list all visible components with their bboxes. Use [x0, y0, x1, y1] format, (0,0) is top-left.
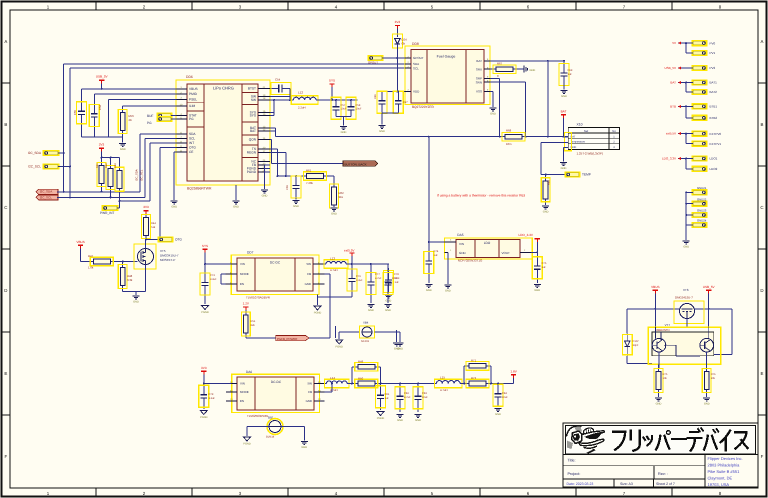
svg-text:DMG3415U-7: DMG3415U-7 — [675, 295, 693, 299]
svg-text:DC-DC: DC-DC — [270, 261, 281, 265]
svg-text:PGND: PGND — [201, 311, 209, 314]
svg-text:GND: GND — [495, 413, 501, 416]
svg-text:GPOUT: GPOUT — [368, 61, 378, 65]
svg-text:C81: C81 — [385, 393, 390, 396]
svg-text:19703, USA: 19703, USA — [708, 482, 730, 487]
svg-text:C: C — [760, 205, 763, 210]
svg-text:SYS: SYS — [329, 78, 335, 82]
svg-text:GND: GND — [133, 300, 139, 303]
svg-text:PGND: PGND — [314, 312, 322, 315]
svg-text:C54: C54 — [275, 78, 281, 82]
svg-text:2803 Philadelphia: 2803 Philadelphia — [708, 462, 741, 467]
svg-text:PV2: PV2 — [710, 66, 716, 70]
svg-text:VIN: VIN — [240, 382, 245, 386]
svg-text:C66: C66 — [374, 94, 377, 99]
svg-text:GND: GND — [683, 245, 689, 248]
svg-text:BAT2: BAT2 — [710, 90, 718, 94]
svg-text:BUTTON_BACK: BUTTON_BACK — [345, 162, 367, 166]
svg-text:SRN: SRN — [476, 80, 482, 84]
svg-text:10k: 10k — [663, 377, 668, 380]
svg-text:NCP702SN33T1G: NCP702SN33T1G — [458, 259, 483, 263]
svg-text:PWR_INT: PWR_INT — [100, 211, 114, 215]
svg-text:X10: X10 — [577, 123, 583, 127]
svg-text:No: No — [612, 129, 616, 133]
svg-text:GND: GND — [397, 347, 403, 350]
svg-text:Sheet 2 of 7: Sheet 2 of 7 — [656, 482, 675, 486]
svg-text:10uF: 10uF — [356, 108, 362, 111]
svg-text:1.8V: 1.8V — [510, 369, 517, 373]
svg-text:I2C_SDA: I2C_SDA — [134, 169, 138, 181]
svg-text:BUF: BUF — [147, 114, 153, 118]
svg-text:LDO_3.3V: LDO_3.3V — [519, 233, 534, 237]
svg-text:C56: C56 — [98, 104, 102, 110]
svg-text:TLV61070ADBVR: TLV61070ADBVR — [246, 296, 271, 300]
svg-text:C69: C69 — [568, 69, 573, 72]
svg-text:BAT1: BAT1 — [710, 81, 718, 85]
svg-text:L13: L13 — [330, 257, 335, 261]
svg-text:PGND: PGND — [335, 346, 343, 349]
svg-text:C83: C83 — [422, 392, 427, 395]
svg-text:C75: C75 — [542, 262, 547, 265]
svg-text:EXTPV0: EXTPV0 — [710, 132, 722, 136]
svg-text:I2C_SCL: I2C_SCL — [40, 195, 53, 199]
svg-text:USB_5V: USB_5V — [664, 66, 676, 70]
svg-text:PGND: PGND — [377, 417, 385, 420]
svg-text:SW: SW — [306, 262, 311, 266]
svg-text:MODE: MODE — [240, 390, 249, 394]
svg-text:F: F — [4, 454, 7, 459]
svg-text:Claymont, DE: Claymont, DE — [708, 476, 733, 481]
svg-text:EN: EN — [240, 399, 244, 403]
svg-text:4.7uF: 4.7uF — [404, 396, 411, 399]
svg-text:R50: R50 — [358, 376, 364, 380]
svg-text:Size: A3: Size: A3 — [620, 482, 633, 486]
svg-text:10uF: 10uF — [422, 396, 428, 399]
svg-text:3.3uF: 3.3uF — [209, 397, 216, 400]
svg-text:SYS: SYS — [202, 244, 208, 248]
svg-text:I2C_SCL: I2C_SCL — [140, 169, 144, 181]
svg-text:C77: C77 — [375, 273, 380, 276]
svg-text:INT: INT — [189, 141, 194, 145]
svg-text:2K: 2K — [129, 118, 133, 122]
svg-text:VBUS: VBUS — [189, 87, 198, 91]
svg-text:Pike Suite B #551: Pike Suite B #551 — [708, 469, 741, 474]
svg-text:10uF: 10uF — [392, 277, 398, 280]
svg-text:E: E — [4, 371, 7, 376]
svg-text:1.2V: 1.2V — [243, 302, 250, 306]
svg-text:ILIM: ILIM — [189, 104, 196, 108]
svg-text:GND: GND — [331, 212, 337, 215]
svg-text:D: D — [4, 288, 7, 293]
svg-text:3.3k: 3.3k — [127, 278, 133, 282]
svg-text:PMID: PMID — [189, 92, 198, 96]
svg-text:GND: GND — [385, 309, 391, 312]
svg-text:EN: EN — [240, 282, 244, 286]
svg-text:FB: FB — [308, 390, 312, 394]
svg-text:1.0k: 1.0k — [88, 266, 94, 270]
svg-text:GND: GND — [301, 446, 307, 449]
svg-text:GPOUT: GPOUT — [413, 56, 424, 60]
svg-text:C76: C76 — [356, 275, 361, 278]
svg-text:3.3uF: 3.3uF — [356, 279, 363, 282]
svg-text:NFZ03: NFZ03 — [361, 340, 369, 343]
svg-text:GND: GND — [561, 95, 567, 98]
svg-text:FB: FB — [307, 272, 311, 276]
svg-text:C79: C79 — [209, 393, 214, 396]
svg-text:R41: R41 — [96, 163, 99, 168]
svg-text:GND: GND — [120, 148, 126, 151]
svg-text:DC-DC: DC-DC — [271, 380, 282, 384]
svg-text:BQ25896RTWR: BQ25896RTWR — [187, 187, 212, 191]
svg-text:GND: GND — [171, 205, 177, 208]
svg-text:GND: GND — [561, 167, 567, 170]
svg-text:1uF: 1uF — [568, 73, 573, 76]
svg-text:A: A — [4, 39, 7, 44]
svg-text:C73: C73 — [210, 274, 215, 277]
svg-text:PGFB_POWER: PGFB_POWER — [277, 337, 297, 341]
svg-text:GND: GND — [305, 282, 311, 286]
svg-text:VIN: VIN — [240, 262, 245, 266]
svg-text:10uF: 10uF — [341, 108, 347, 111]
svg-text:C74: C74 — [434, 250, 439, 253]
svg-text:GND: GND — [306, 399, 312, 403]
svg-text:VDD: VDD — [413, 90, 420, 94]
svg-text:VBUS: VBUS — [651, 285, 659, 289]
svg-text:SRX: SRX — [476, 67, 482, 71]
svg-text:R47: R47 — [88, 254, 94, 258]
svg-text:BLM18: BLM18 — [266, 436, 275, 439]
svg-text:GND: GND — [415, 419, 421, 422]
svg-text:4.7uH: 4.7uH — [330, 268, 337, 272]
svg-text:R43: R43 — [114, 163, 117, 168]
svg-text:VT6: VT6 — [683, 288, 689, 292]
svg-text:VSS: VSS — [476, 90, 482, 94]
svg-text:R51: R51 — [251, 320, 256, 323]
svg-text:DD8: DD8 — [412, 42, 419, 46]
svg-text:R49: R49 — [358, 360, 364, 364]
svg-text:SCL: SCL — [413, 66, 419, 70]
svg-text:PG: PG — [147, 121, 152, 125]
svg-text:10m: 10m — [506, 142, 512, 146]
svg-text:I2C_SDA: I2C_SDA — [28, 151, 42, 155]
svg-text:1uF: 1uF — [385, 397, 390, 400]
svg-text:A: A — [761, 39, 764, 44]
svg-text:C67: C67 — [403, 101, 408, 104]
svg-text:SCL: SCL — [189, 137, 195, 141]
svg-text:I2C_SDA: I2C_SDA — [40, 190, 53, 194]
svg-text:C55: C55 — [73, 110, 77, 116]
svg-text:R42: R42 — [105, 163, 108, 168]
svg-text:REGN: REGN — [247, 151, 257, 155]
svg-text:B: B — [761, 122, 764, 127]
svg-text:51k: 51k — [151, 226, 156, 229]
svg-text:Fuel Gauge: Fuel Gauge — [437, 55, 456, 59]
svg-text:R68: R68 — [506, 129, 512, 133]
svg-text:Title:: Title: — [568, 459, 576, 463]
svg-text:SW: SW — [307, 382, 312, 386]
svg-text:C84: C84 — [502, 392, 507, 395]
svg-text:PSEL: PSEL — [189, 98, 197, 102]
svg-text:GND21: GND21 — [697, 186, 707, 190]
svg-text:L12: L12 — [298, 91, 303, 95]
svg-text:E: E — [761, 371, 764, 376]
svg-text:L14: L14 — [330, 376, 335, 380]
svg-text:R44: R44 — [151, 222, 156, 225]
svg-text:R72: R72 — [471, 376, 477, 380]
svg-text:ext5.5V: ext5.5V — [344, 248, 355, 252]
svg-text:10uF: 10uF — [502, 396, 508, 399]
svg-text:BTB2: BTB2 — [710, 116, 718, 120]
svg-text:LDO2: LDO2 — [710, 167, 718, 171]
svg-text:B: B — [4, 122, 7, 127]
svg-text:2.2uH: 2.2uH — [298, 106, 305, 110]
svg-text:VIN: VIN — [459, 242, 464, 246]
svg-text:BAT: BAT — [561, 109, 567, 113]
svg-text:MODE: MODE — [240, 272, 249, 276]
svg-text:3V3: 3V3 — [99, 143, 105, 147]
svg-text:VBUS: VBUS — [76, 240, 84, 244]
svg-text:Gk: Gk — [402, 42, 406, 46]
svg-text:Temperature: Temperature — [571, 141, 586, 144]
svg-text:R76: R76 — [711, 373, 716, 376]
svg-text:CE: CE — [189, 150, 193, 154]
svg-text:LiPo CHRG: LiPo CHRG — [213, 86, 234, 91]
svg-text:VT5: VT5 — [160, 249, 166, 253]
svg-text:4.7uH: 4.7uH — [330, 388, 337, 392]
svg-text:R75: R75 — [663, 373, 668, 376]
svg-text:TEMP: TEMP — [582, 173, 591, 177]
svg-text:PV1: PV1 — [710, 51, 716, 55]
svg-text:Project:: Project: — [568, 472, 581, 476]
svg-text:BAT: BAT — [476, 59, 482, 63]
svg-text:USB_5V: USB_5V — [96, 75, 109, 79]
svg-text:Date: 2023.03.23: Date: 2023.03.23 — [567, 482, 594, 486]
svg-text:PGND: PGND — [200, 416, 208, 419]
svg-text:GND24: GND24 — [697, 219, 707, 223]
svg-text:R63: R63 — [548, 180, 551, 185]
svg-text:Flipper Devices Inc.: Flipper Devices Inc. — [708, 456, 743, 461]
svg-text:PV0: PV0 — [710, 41, 716, 45]
svg-text:33pF: 33pF — [633, 344, 639, 347]
svg-text:MOSFET-P: MOSFET-P — [160, 258, 175, 262]
svg-text:TLV62569PDRL: TLV62569PDRL — [247, 414, 269, 418]
svg-text:GND: GND — [426, 289, 432, 292]
svg-text:GND: GND — [262, 194, 268, 197]
svg-text:7.23k: 7.23k — [306, 181, 313, 185]
svg-text:GND: GND — [459, 251, 467, 255]
svg-text:3.3uF: 3.3uF — [210, 278, 217, 281]
svg-text:GND: GND — [490, 112, 496, 115]
svg-text:C82: C82 — [404, 392, 409, 395]
svg-text:XB4: XB4 — [363, 321, 369, 325]
svg-text:LDO: LDO — [484, 241, 491, 245]
svg-text:DA6: DA6 — [246, 370, 252, 374]
svg-text:SDA: SDA — [189, 132, 196, 136]
svg-text:GND: GND — [704, 402, 710, 405]
svg-text:If using a battery with a ther: If using a battery with a thermistor - r… — [437, 194, 525, 198]
svg-text:PGND: PGND — [243, 443, 251, 446]
svg-text:VT7: VT7 — [665, 323, 671, 327]
svg-text:GND: GND — [397, 419, 403, 422]
svg-text:DD6: DD6 — [186, 75, 193, 79]
svg-text:BTB1: BTB1 — [710, 105, 718, 109]
svg-text:DMG3415U-7: DMG3415U-7 — [160, 254, 179, 258]
svg-text:R61: R61 — [306, 169, 312, 173]
svg-text:SYS: SYS — [250, 114, 256, 118]
svg-text:D: D — [760, 288, 763, 293]
svg-text:DD7: DD7 — [247, 251, 254, 255]
svg-text:C78: C78 — [394, 273, 399, 276]
svg-text:GND: GND — [534, 289, 540, 292]
svg-text:LDO1: LDO1 — [710, 157, 718, 161]
svg-text:GND23: GND23 — [697, 209, 707, 213]
svg-text:1uF: 1uF — [542, 266, 547, 269]
svg-text:BTST: BTST — [248, 87, 256, 91]
svg-text:QON: QON — [249, 138, 257, 142]
svg-text:Net: Net — [584, 129, 589, 133]
svg-text:GND: GND — [293, 205, 299, 208]
svg-text:SW: SW — [251, 98, 256, 102]
svg-text:1uF: 1uF — [434, 254, 439, 257]
svg-text:OTG: OTG — [175, 238, 182, 242]
svg-text:C107: C107 — [633, 340, 640, 343]
svg-text:OTG: OTG — [189, 146, 196, 150]
svg-text:BTB: BTB — [670, 105, 676, 109]
svg-text:3V3: 3V3 — [201, 366, 207, 370]
svg-text:L15: L15 — [440, 376, 445, 380]
svg-text:GND: GND — [379, 130, 385, 133]
svg-text:C: C — [4, 205, 7, 210]
svg-text:VOUT: VOUT — [502, 251, 511, 255]
svg-text:BQ27220YZFR: BQ27220YZFR — [412, 105, 434, 109]
svg-text:GND: GND — [543, 210, 549, 213]
svg-text:F: F — [761, 454, 764, 459]
svg-text:C59: C59 — [286, 185, 289, 190]
svg-text:GND: GND — [530, 69, 536, 72]
svg-text:4.7uH: 4.7uH — [440, 388, 447, 392]
svg-text:4.7uF: 4.7uF — [375, 277, 382, 280]
svg-text:5V: 5V — [672, 41, 676, 45]
svg-text:91k: 91k — [339, 195, 344, 199]
svg-text:SDA: SDA — [413, 62, 419, 66]
svg-text:GND22: GND22 — [697, 197, 707, 201]
svg-text:GND: GND — [656, 402, 662, 405]
svg-text:BAT: BAT — [250, 129, 256, 133]
svg-text:BAT: BAT — [670, 81, 676, 85]
svg-text:ext5.5V: ext5.5V — [666, 132, 676, 136]
svg-text:R71: R71 — [471, 358, 477, 362]
svg-text:GND: GND — [368, 309, 374, 312]
svg-text:GND: GND — [341, 131, 347, 134]
svg-text:PG: PG — [189, 117, 194, 121]
svg-text:PGND: PGND — [247, 170, 257, 174]
svg-text:GND: GND — [233, 205, 239, 208]
svg-text:DA5: DA5 — [457, 233, 463, 237]
svg-text:3V3: 3V3 — [395, 20, 401, 24]
svg-text:I2C_SCL: I2C_SCL — [28, 165, 41, 169]
svg-text:UMB10NTN: UMB10NTN — [655, 329, 670, 332]
svg-text:1uF: 1uF — [395, 281, 400, 284]
svg-text:LDO_3.3V: LDO_3.3V — [662, 157, 676, 161]
svg-text:EXTPV1: EXTPV1 — [710, 142, 722, 146]
svg-text:GND: GND — [445, 289, 451, 292]
svg-text:1.25T-2.WB(L3x3P): 1.25T-2.WB(L3x3P) — [577, 152, 603, 156]
svg-text:82k: 82k — [251, 324, 256, 327]
svg-text:R67: R67 — [497, 62, 503, 66]
svg-text:10k: 10k — [711, 377, 716, 380]
svg-text:Rev: -: Rev: - — [658, 472, 669, 476]
svg-text:3V3: 3V3 — [143, 205, 149, 209]
svg-text:USB_5V: USB_5V — [703, 285, 716, 289]
